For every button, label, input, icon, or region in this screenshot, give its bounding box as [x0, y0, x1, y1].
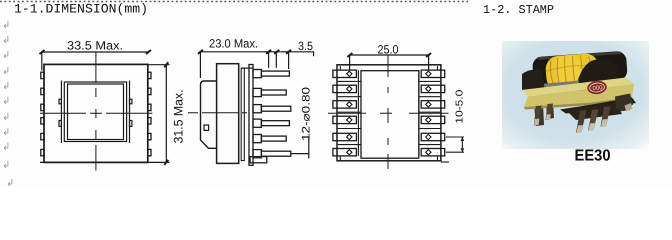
- svg-text:1-2. STAMP: 1-2. STAMP: [483, 3, 554, 17]
- svg-text:1-1.DIMENSION(mm): 1-1.DIMENSION(mm): [14, 2, 148, 17]
- svg-text:↲: ↲: [2, 35, 10, 46]
- svg-text:25.0: 25.0: [378, 42, 399, 56]
- svg-text:↲: ↲: [2, 160, 10, 171]
- svg-text:10-5.0: 10-5.0: [455, 89, 466, 124]
- svg-text:↲: ↲: [2, 96, 10, 107]
- svg-text:↲: ↲: [2, 127, 10, 138]
- svg-text:↲: ↲: [2, 112, 10, 123]
- svg-text:12-⌀0.80: 12-⌀0.80: [300, 87, 312, 141]
- svg-text:000: 000: [592, 84, 603, 92]
- svg-text:33.5 Max.: 33.5 Max.: [67, 39, 123, 53]
- svg-text:23.0 Max.: 23.0 Max.: [209, 37, 258, 51]
- svg-text:↲: ↲: [2, 50, 10, 61]
- svg-text:↲: ↲: [2, 142, 10, 153]
- svg-text:31.5 Max.: 31.5 Max.: [172, 90, 186, 144]
- svg-text:↲: ↲: [6, 178, 14, 186]
- svg-text:↲: ↲: [2, 20, 10, 31]
- svg-text:↲: ↲: [2, 66, 10, 77]
- svg-text:EE30: EE30: [575, 148, 611, 165]
- svg-text:3.5: 3.5: [298, 39, 313, 53]
- svg-text:↲: ↲: [2, 81, 10, 92]
